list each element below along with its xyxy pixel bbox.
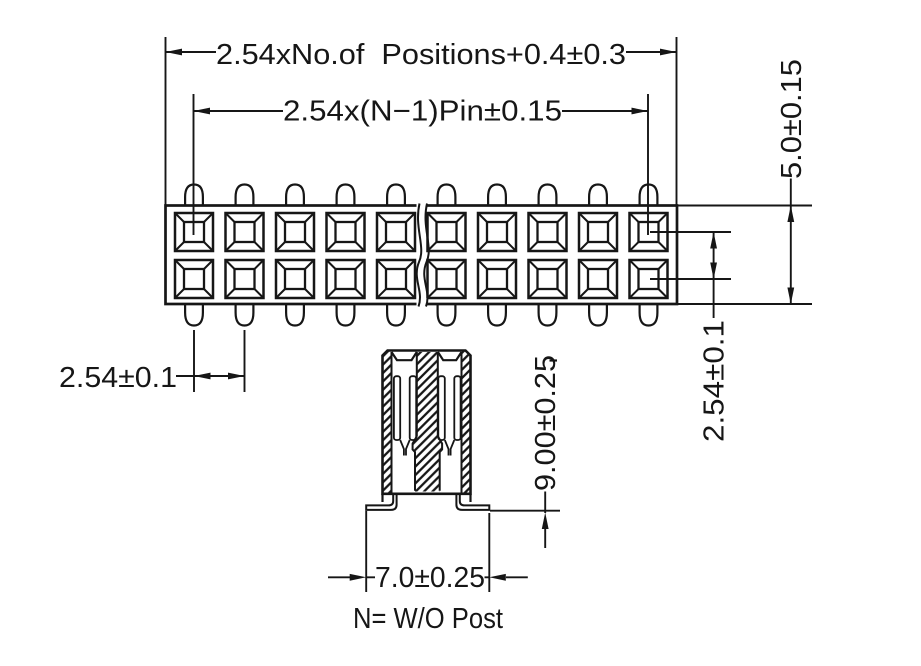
pin 1 top tail xyxy=(185,185,203,206)
socket row2 pos3 xyxy=(276,260,314,298)
row pitch dim line + arrows xyxy=(713,232,715,318)
pin 9 bottom tail xyxy=(589,304,607,326)
socket row1 pos4 xyxy=(327,213,365,251)
left solder foot xyxy=(366,494,396,510)
socket row1 pos10 xyxy=(630,213,668,251)
body break gap xyxy=(417,200,428,211)
socket row2 pos10 xyxy=(630,260,668,298)
right contact taper stem xyxy=(445,440,455,456)
svg-text:7.0±0.25: 7.0±0.25 xyxy=(375,562,485,594)
dim 9.00 top tick xyxy=(550,359,558,361)
right cavity wall lines xyxy=(438,352,462,493)
socket row1 pos8 xyxy=(529,213,567,251)
pin 10 top tail xyxy=(640,185,658,206)
section left edge lower stub xyxy=(381,494,383,502)
socket row1 pos5 xyxy=(377,213,415,251)
section body hatched right wall xyxy=(462,351,471,494)
left contact rail A xyxy=(394,376,400,440)
socket row2 pos6 xyxy=(428,260,466,298)
pin 7 bottom tail xyxy=(488,304,506,326)
row pitch extension lines xyxy=(650,232,731,279)
break line right xyxy=(424,204,429,307)
pin pitch extension lines xyxy=(194,330,245,392)
dim pin-span line + arrows xyxy=(194,110,649,112)
socket row1 pos3 xyxy=(276,213,314,251)
socket row2 pos5 xyxy=(377,260,415,298)
svg-text:9.00±0.25: 9.00±0.25 xyxy=(530,355,562,491)
socket row2 pos8 xyxy=(529,260,567,298)
pin pitch dim line xyxy=(176,375,245,377)
right contact rail A xyxy=(438,376,445,440)
svg-text:2.54x(N−1)Pin±0.15: 2.54x(N−1)Pin±0.15 xyxy=(283,96,562,128)
left cavity wall lines xyxy=(392,352,417,493)
break line left xyxy=(417,204,422,307)
svg-text:2.54±0.1: 2.54±0.1 xyxy=(59,362,177,394)
dim overall width line + arrows xyxy=(166,51,677,53)
center post flare outline xyxy=(413,436,443,491)
pin 3 bottom tail xyxy=(286,304,304,326)
pin 2 bottom tail xyxy=(236,304,254,326)
pin 1 bottom tail xyxy=(185,304,203,326)
pin 6 top tail xyxy=(438,185,456,206)
pin 4 bottom tail xyxy=(337,304,355,326)
section center post hatched xyxy=(413,352,443,492)
pin 8 bottom tail xyxy=(539,304,557,326)
dim 9.00 lower line + ext xyxy=(490,492,560,514)
dim height extension lines xyxy=(677,206,812,305)
pin 8 top tail xyxy=(539,185,557,206)
socket row1 pos7 xyxy=(478,213,516,251)
svg-text:N= W/O Post: N= W/O Post xyxy=(353,603,503,635)
pin 10 bottom tail xyxy=(640,304,658,326)
pin 3 top tail xyxy=(286,185,304,206)
socket row1 pos6 xyxy=(428,213,466,251)
dim height line + arrows xyxy=(790,179,792,305)
pin 4 top tail xyxy=(337,185,355,206)
pin 5 top tail xyxy=(387,185,405,206)
svg-text:2.54±0.1: 2.54±0.1 xyxy=(699,320,731,442)
section right edge lower stub xyxy=(469,494,471,502)
dim 7.0 line stubs xyxy=(366,576,489,578)
pin 9 top tail xyxy=(589,185,607,206)
pin 7 top tail xyxy=(488,185,506,206)
section outer outline xyxy=(383,351,471,494)
right cavity funnel chamfer xyxy=(438,352,462,360)
right solder foot xyxy=(456,494,489,510)
left cavity funnel chamfer xyxy=(392,352,417,360)
socket row2 pos4 xyxy=(327,260,365,298)
socket row2 pos9 xyxy=(579,260,617,298)
svg-text:5.0±0.15: 5.0±0.15 xyxy=(776,59,808,179)
pin 5 bottom tail xyxy=(387,304,405,326)
socket row1 pos9 xyxy=(579,213,617,251)
socket row2 pos2 xyxy=(226,260,264,298)
dim 9.00 outside arrow xyxy=(544,526,546,548)
pin 6 bottom tail xyxy=(438,304,456,326)
socket row2 pos1 xyxy=(175,260,213,298)
pin 2 top tail xyxy=(236,185,254,206)
socket row1 pos2 xyxy=(226,213,264,251)
dim 7.0 extension lines xyxy=(366,511,489,592)
section body hatched left wall xyxy=(383,351,392,494)
socket row2 pos7 xyxy=(478,260,516,298)
right contact rail B xyxy=(454,376,460,440)
left contact taper stem xyxy=(400,440,410,456)
dim 7.0 outside arrows xyxy=(328,576,528,578)
dim overall width extension lines xyxy=(166,37,677,206)
connector body outline xyxy=(166,206,678,305)
left contact rail B xyxy=(410,376,417,440)
dim pin-span extension lines xyxy=(194,94,649,235)
svg-text:2.54xNo.of Positions+0.4±0.3: 2.54xNo.of Positions+0.4±0.3 xyxy=(216,39,626,71)
socket row1 pos1 xyxy=(175,213,213,251)
